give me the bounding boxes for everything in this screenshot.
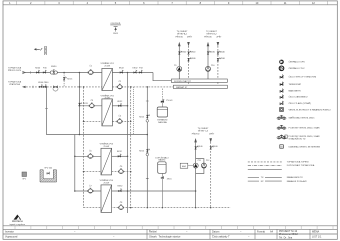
svg-text:PROTECH: PROTECH bbox=[12, 221, 23, 223]
svg-text:KK15: KK15 bbox=[67, 79, 73, 81]
svg-text:Vypracoval: Vypracoval bbox=[5, 236, 18, 239]
svg-text:PV 6/4: PV 6/4 bbox=[166, 100, 173, 102]
svg-text:TOPNÁ VODA TOPENÍ: TOPNÁ VODA TOPENÍ bbox=[287, 161, 309, 164]
svg-text:KANÁLEK PODLAHY: KANÁLEK PODLAHY bbox=[287, 180, 308, 183]
svg-text:DN15: DN15 bbox=[113, 33, 118, 35]
svg-text:25 kW: 25 kW bbox=[103, 183, 109, 185]
svg-text:VR40: VR40 bbox=[220, 58, 225, 60]
svg-text:VĚTEV A-1: VĚTEV A-1 bbox=[177, 33, 188, 36]
svg-text:KK40: KK40 bbox=[210, 51, 215, 53]
svg-text:KANALIZACE TK: KANALIZACE TK bbox=[287, 176, 304, 179]
svg-text:KK40: KK40 bbox=[220, 51, 225, 53]
svg-text:ČIDLO ZÁSOBNÍKU: ČIDLO ZÁSOBNÍKU bbox=[289, 96, 308, 99]
svg-text:LIST 1/1: LIST 1/1 bbox=[312, 236, 322, 239]
svg-text:topení a regulace: topení a regulace bbox=[10, 223, 26, 226]
svg-text:PŘÍVOD: PŘÍVOD bbox=[192, 132, 200, 135]
svg-text:MaR: MaR bbox=[182, 166, 187, 168]
svg-text:UZAVÍRACÍ VENTIL SE SERVEM: UZAVÍRACÍ VENTIL SE SERVEM bbox=[289, 145, 321, 148]
svg-text:ČIDLO TLAKU (STRÁŽ): ČIDLO TLAKU (STRÁŽ) bbox=[289, 102, 312, 105]
svg-text:KK40: KK40 bbox=[191, 51, 196, 53]
svg-text:DOPLŇOVACÍ TOPNÁ VODA: DOPLŇOVACÍ TOPNÁ VODA bbox=[287, 164, 315, 167]
svg-text:KK40: KK40 bbox=[213, 146, 218, 148]
svg-text:25 kW: 25 kW bbox=[104, 66, 110, 68]
svg-text:Datum: Datum bbox=[212, 231, 219, 234]
svg-text:NÁDOBA: NÁDOBA bbox=[158, 121, 167, 124]
svg-text:Č9: Č9 bbox=[174, 64, 176, 67]
svg-text:POJISTNÝ VENTIL DN20, 3 BAR: POJISTNÝ VENTIL DN20, 3 BAR bbox=[289, 135, 320, 138]
svg-text:TERMOSTAT: TERMOSTAT bbox=[289, 83, 302, 86]
svg-text:ZPĚT: ZPĚT bbox=[209, 132, 215, 135]
svg-text:ZPĚT: ZPĚT bbox=[216, 35, 222, 38]
svg-text:25 kW: 25 kW bbox=[105, 98, 110, 100]
svg-text:Číslo zakázky T: Číslo zakázky T bbox=[212, 236, 230, 239]
svg-text:MANOMETR: MANOMETR bbox=[289, 90, 302, 93]
svg-text:ČERPADLO TUV: ČERPADLO TUV bbox=[289, 67, 306, 70]
svg-text:ROZDĚLOVAČ RT: ROZDĚLOVAČ RT bbox=[174, 80, 192, 83]
svg-text:Řešitel: Řešitel bbox=[149, 231, 157, 234]
svg-text:Investor: Investor bbox=[5, 231, 14, 234]
svg-text:25 kW: 25 kW bbox=[103, 146, 109, 148]
svg-text:ODVZDUŠ.: ODVZDUŠ. bbox=[110, 22, 121, 25]
svg-text:KK32: KK32 bbox=[117, 151, 123, 153]
svg-text:VĚTEV B-2: VĚTEV B-2 bbox=[206, 33, 217, 36]
svg-text:ČERPADLO UPS: ČERPADLO UPS bbox=[289, 61, 306, 64]
svg-text:Formát: Formát bbox=[257, 231, 265, 234]
svg-text:KK40: KK40 bbox=[198, 146, 203, 148]
svg-text:VĚTEV C-3: VĚTEV C-3 bbox=[198, 130, 209, 133]
svg-text:M: M bbox=[281, 147, 283, 149]
svg-text:KK40: KK40 bbox=[182, 51, 187, 53]
svg-text:PŘÍVOD 90/70: PŘÍVOD 90/70 bbox=[8, 69, 22, 72]
svg-text:Č10: Č10 bbox=[211, 64, 214, 67]
svg-text:POJISTNÝ VENTIL DN20, 3 BAR: POJISTNÝ VENTIL DN20, 3 BAR bbox=[289, 126, 320, 129]
svg-text:ZPĚT: ZPĚT bbox=[187, 35, 193, 38]
svg-text:S NÁDRŽKOU TD: S NÁDRŽKOU TD bbox=[289, 138, 306, 141]
svg-text:ČIDLO TEPLOTY VENKOVNÍ: ČIDLO TEPLOTY VENKOVNÍ bbox=[289, 76, 317, 79]
svg-text:KK32: KK32 bbox=[117, 101, 123, 103]
svg-text:SBĚRAČ ST: SBĚRAČ ST bbox=[176, 86, 188, 89]
svg-text:KK32: KK32 bbox=[119, 68, 125, 70]
svg-text:MĚNA: MĚNA bbox=[312, 231, 320, 234]
svg-text:PŘÍVOD: PŘÍVOD bbox=[175, 35, 183, 38]
svg-text:Tel. Dr. Jína: Tel. Dr. Jína bbox=[279, 236, 293, 239]
svg-text:VENTIL ELEKTRICKÝ S HAVARIJNÍ: VENTIL ELEKTRICKÝ S HAVARIJNÍ FUNKCÍ bbox=[289, 108, 332, 111]
svg-text:VR40: VR40 bbox=[191, 58, 196, 60]
svg-text:Obsah: Technologie stanice: Obsah: Technologie stanice bbox=[149, 236, 181, 239]
svg-text:PŘÍVOD: PŘÍVOD bbox=[204, 35, 212, 38]
svg-text:SMĚŠOVACÍ VENTIL DN25: SMĚŠOVACÍ VENTIL DN25 bbox=[289, 117, 316, 120]
svg-text:ZPÁTEČKA: ZPÁTEČKA bbox=[9, 83, 20, 86]
svg-text:MV40: MV40 bbox=[51, 66, 57, 68]
svg-text:VPU 200: VPU 200 bbox=[44, 168, 52, 170]
svg-text:NÁDRŽ: NÁDRŽ bbox=[158, 159, 166, 162]
svg-text:Č11: Č11 bbox=[198, 159, 201, 162]
svg-text:VP1: VP1 bbox=[22, 178, 26, 180]
svg-text:Č12: Č12 bbox=[206, 159, 209, 162]
